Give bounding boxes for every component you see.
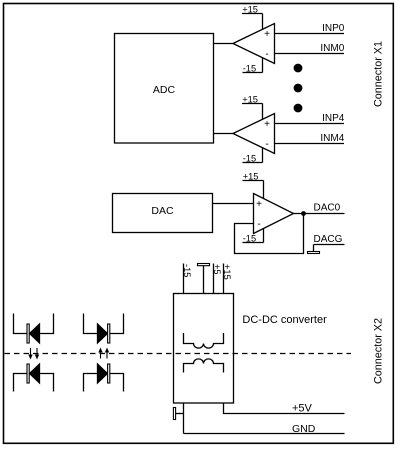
pin -15 <box>182 264 192 294</box>
optocoupler D3 diode <box>14 364 54 392</box>
svg-text:DAC: DAC <box>151 205 174 217</box>
wire INM4 <box>275 143 345 145</box>
svg-text:+: + <box>256 199 262 210</box>
isolation barrier dashed line <box>5 353 352 355</box>
transformer primary winding L1 <box>184 333 224 348</box>
svg-text:-: - <box>265 139 268 150</box>
wire INP4 <box>275 123 345 125</box>
svg-text:+: + <box>264 29 270 40</box>
ADC U1 <box>115 34 214 144</box>
optocoupler D2 diode <box>84 314 124 344</box>
wire DACG <box>314 244 345 246</box>
svg-text:INP0: INP0 <box>322 23 345 34</box>
svg-text:DACG: DACG <box>314 234 343 245</box>
svg-text:-15: -15 <box>182 264 192 277</box>
svg-text:+5: +5 <box>212 264 222 275</box>
+15 supply U5 <box>243 172 264 199</box>
op-amp U2 <box>233 24 275 64</box>
connector X2 label <box>373 318 385 384</box>
-15 supply U3 <box>243 148 263 164</box>
pin +5 <box>212 264 222 294</box>
op-amp U5 <box>254 194 294 234</box>
+15 supply U3 <box>242 95 263 120</box>
pin common bar <box>198 264 210 294</box>
svg-text:+: + <box>264 119 270 130</box>
light arrows up right pair <box>98 348 109 359</box>
svg-text:Connector X2: Connector X2 <box>373 318 385 384</box>
junction node <box>301 211 306 216</box>
svg-text:ADC: ADC <box>153 84 176 96</box>
svg-text:Connector X1: Connector X1 <box>373 41 385 107</box>
pin +15 <box>222 264 232 294</box>
DAC U4 <box>113 194 213 233</box>
svg-text:-: - <box>265 49 268 60</box>
op-amp U3 <box>233 114 275 154</box>
light arrows down left pair <box>28 348 39 360</box>
transformer secondary winding L2 <box>184 359 224 373</box>
svg-text:DC-DC converter: DC-DC converter <box>242 314 327 326</box>
wire GND vertical <box>183 403 185 434</box>
svg-text:+5V: +5V <box>292 402 313 414</box>
wire +5V <box>224 403 345 414</box>
svg-text:GND: GND <box>292 423 316 435</box>
DC-DC converter U6 <box>174 294 328 404</box>
svg-text:INP4: INP4 <box>322 113 345 124</box>
svg-text:INM4: INM4 <box>320 133 344 144</box>
optocoupler D4 diode <box>84 364 124 392</box>
wire DAC0 <box>294 213 345 215</box>
ellipsis dots <box>294 64 303 113</box>
ground bar at DC-DC input <box>173 408 183 420</box>
wire GND horizontal <box>184 433 345 435</box>
+15 supply U2 <box>242 5 263 30</box>
svg-text:DAC0: DAC0 <box>314 203 341 214</box>
wire ADC to op-amp U3 <box>214 133 234 135</box>
ground symbol DACG <box>308 245 320 254</box>
optocoupler D1 diode <box>14 314 54 344</box>
svg-text:INM0: INM0 <box>320 43 344 54</box>
svg-text:-: - <box>257 219 260 230</box>
wire INM0 <box>275 53 345 55</box>
connector X1 label <box>373 41 385 107</box>
wire INP0 <box>275 33 345 35</box>
-15 supply U2 <box>243 58 263 74</box>
wire ADC to op-amp U2 <box>214 43 234 45</box>
-15 supply U5 <box>243 228 264 243</box>
svg-text:+15: +15 <box>222 264 232 280</box>
feedback wire U5 <box>235 214 304 254</box>
wire DAC to op-amp U5 <box>213 203 254 205</box>
